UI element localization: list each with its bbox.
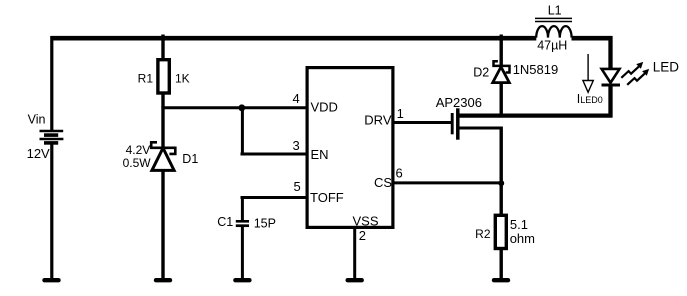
svg-text:VSS: VSS — [352, 213, 378, 228]
svg-text:4.2V: 4.2V — [126, 143, 151, 157]
svg-text:VDD: VDD — [311, 100, 338, 115]
svg-text:DRV: DRV — [364, 112, 392, 127]
svg-text:6: 6 — [396, 166, 403, 181]
svg-text:TOFF: TOFF — [310, 190, 344, 205]
svg-text:5.1: 5.1 — [510, 217, 528, 232]
svg-text:1N5819: 1N5819 — [513, 62, 559, 77]
svg-text:D1: D1 — [182, 152, 198, 166]
svg-text:LED: LED — [653, 60, 680, 75]
svg-text:2: 2 — [359, 228, 366, 243]
svg-text:AP2306: AP2306 — [436, 95, 482, 110]
svg-text:1: 1 — [397, 106, 404, 121]
svg-text:12V: 12V — [27, 146, 50, 161]
svg-text:Vin: Vin — [28, 112, 46, 126]
svg-text:CS: CS — [374, 175, 392, 190]
svg-text:1K: 1K — [175, 72, 190, 86]
svg-text:EN: EN — [311, 147, 329, 162]
svg-text:C1: C1 — [217, 215, 233, 229]
svg-text:5: 5 — [294, 179, 301, 194]
svg-text:R2: R2 — [475, 227, 491, 241]
svg-text:0.5W: 0.5W — [123, 156, 152, 170]
svg-text:ohm: ohm — [510, 231, 535, 246]
svg-text:ILED0: ILED0 — [577, 92, 603, 106]
svg-text:15P: 15P — [254, 216, 276, 230]
svg-text:3: 3 — [293, 138, 300, 153]
svg-text:L1: L1 — [548, 4, 562, 18]
svg-text:47µH: 47µH — [537, 39, 567, 53]
svg-text:4: 4 — [293, 91, 300, 106]
svg-text:R1: R1 — [138, 72, 154, 86]
svg-text:D2: D2 — [473, 66, 489, 80]
